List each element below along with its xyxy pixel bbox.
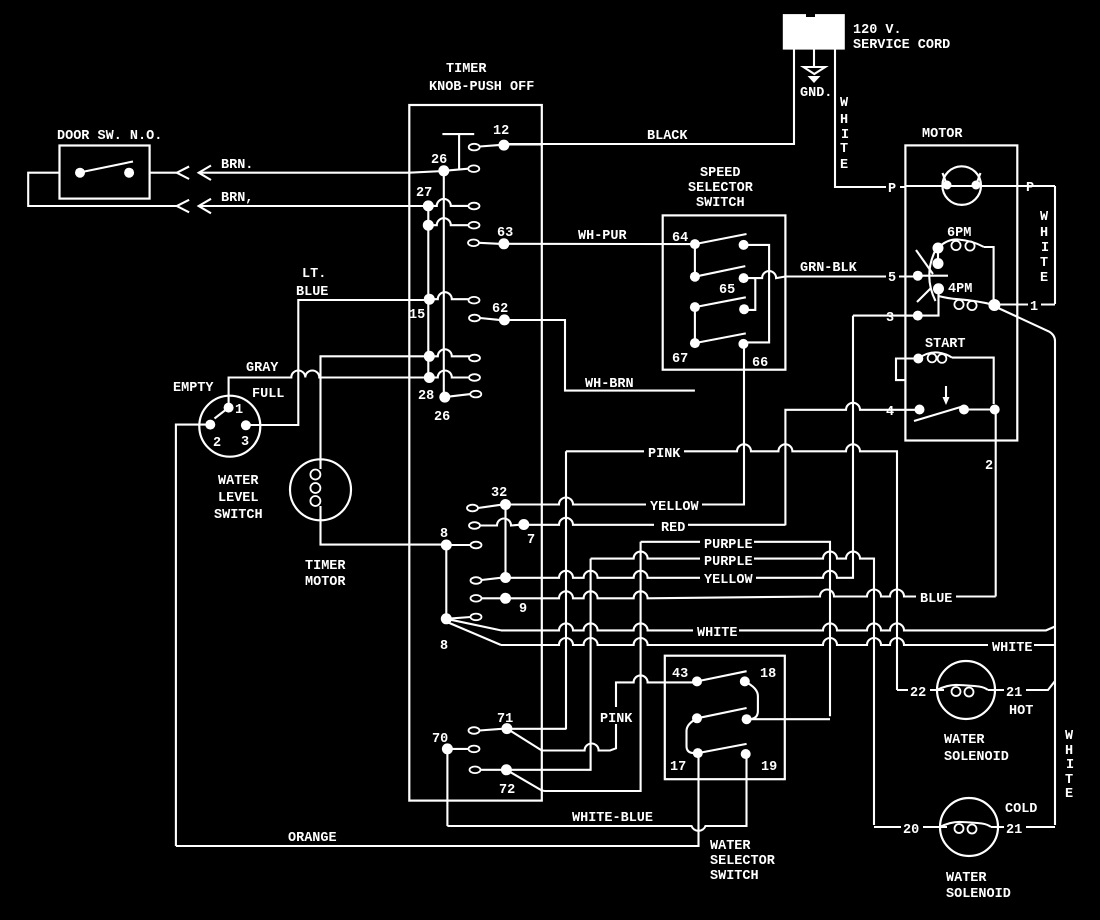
svg-text:2: 2	[985, 459, 993, 474]
wire 21 cold solenoid right to rail	[991, 826, 1055, 828]
svg-text:26: 26	[434, 410, 450, 425]
svg-text:WH-PUR: WH-PUR	[578, 229, 628, 244]
timer contact 26	[438, 165, 449, 176]
label P right	[1024, 178, 1038, 193]
svg-text:43: 43	[672, 667, 688, 682]
svg-text:COLD: COLD	[1005, 802, 1037, 817]
wire contact to hook with hop	[429, 371, 469, 378]
svg-text:67: 67	[672, 352, 688, 367]
wire 72 blade diagonal	[506, 770, 541, 791]
svg-text:9: 9	[519, 602, 527, 617]
svg-text:I: I	[1041, 241, 1049, 256]
svg-text:SPEED: SPEED	[700, 166, 741, 181]
connector arrow row2	[199, 199, 211, 214]
timer bus column 26-28	[443, 171, 445, 397]
svg-text:21: 21	[1006, 823, 1022, 838]
wire 72 to purple2 riser	[506, 559, 590, 770]
timer T-bar bus for 12	[442, 134, 474, 170]
wire YELLOW2 timer to motor 3	[506, 316, 854, 578]
svg-text:32: 32	[491, 486, 507, 501]
wire contact to hook with hop	[429, 349, 469, 356]
timer hook 28	[470, 391, 481, 398]
wire door switch loop left	[28, 173, 177, 206]
svg-text:72: 72	[499, 783, 515, 798]
wire mid right to purple1 riser	[747, 718, 830, 720]
speed contact row3 right	[739, 304, 749, 314]
timer hook 7	[469, 522, 480, 529]
svg-text:BRN.: BRN.	[221, 158, 253, 173]
water selector contact mid left	[692, 713, 702, 723]
wire 70 down to WHITE-BLUE	[446, 749, 448, 826]
svg-text:FULL: FULL	[252, 387, 284, 402]
wire 12 to BLACK	[504, 143, 542, 145]
svg-text:H: H	[1065, 744, 1073, 759]
connector chevron row2	[177, 200, 189, 213]
motor start bracket	[896, 359, 918, 381]
motor start contact	[913, 354, 923, 364]
timer contact 71	[501, 723, 512, 734]
speed left column 67	[694, 307, 696, 343]
wire PINK 71 riser	[565, 451, 567, 729]
wire centrifugal to start return	[964, 408, 995, 410]
timer contact 27	[423, 200, 434, 211]
svg-text:62: 62	[492, 302, 508, 317]
water selector contact 17	[693, 748, 703, 758]
wire WHITE2 8 to hot solenoid 21	[501, 638, 1055, 645]
wire GRN-BLK to motor 5 with hop	[753, 271, 918, 278]
timer hook (577 contact)	[471, 577, 482, 584]
svg-text:I: I	[841, 128, 849, 143]
svg-text:BLACK: BLACK	[647, 129, 688, 144]
water selector link mid left to 17	[687, 718, 698, 753]
timer motor TM	[290, 459, 351, 520]
svg-text:P: P	[1026, 181, 1034, 196]
svg-text:WH-BRN: WH-BRN	[585, 377, 634, 392]
timer contact 72	[501, 764, 512, 775]
svg-text:SOLENOID: SOLENOID	[944, 750, 1009, 765]
wire 1 to white rail	[994, 303, 1055, 305]
timer hook 8b	[471, 614, 482, 621]
svg-text:LEVEL: LEVEL	[218, 491, 259, 506]
wire 8 to hook	[446, 544, 470, 546]
wire 8b to WHITE1	[446, 619, 501, 631]
svg-text:E: E	[1040, 271, 1048, 286]
connector arrow row1	[199, 166, 211, 181]
svg-text:BLUE: BLUE	[296, 285, 328, 300]
svg-text:65: 65	[719, 283, 735, 298]
timer column 8 down	[445, 545, 447, 619]
timer hook 72	[470, 767, 481, 774]
motor 4PM winding	[939, 289, 995, 305]
svg-text:SWITCH: SWITCH	[214, 508, 263, 523]
speed link row2 to row3	[744, 278, 756, 310]
timer contact 70	[442, 743, 453, 754]
svg-text:WHITE: WHITE	[697, 626, 738, 641]
svg-text:SWITCH: SWITCH	[696, 196, 745, 211]
wire 26 to hook	[444, 169, 469, 171]
wire 20 cold solenoid left	[874, 826, 947, 828]
svg-text:H: H	[840, 113, 848, 128]
svg-text:SWITCH: SWITCH	[710, 869, 759, 884]
motor 6PM winding	[938, 239, 984, 248]
wire contact2 to ORANGE	[176, 425, 210, 846]
wire LT BLUE contact3 to timer 15	[246, 300, 429, 425]
water selector contact 18	[740, 676, 750, 686]
speed left column 64-65	[694, 244, 696, 277]
wire BRN row1 to timer 26	[199, 171, 444, 173]
wire WH-PUR 63 to speed selector 64	[504, 243, 695, 245]
svg-text:W: W	[1065, 729, 1074, 744]
wire PURPLE2 72 to cold solenoid	[591, 552, 874, 825]
motor junction dot 1	[988, 299, 1000, 311]
speed contact 65 left	[690, 272, 700, 282]
svg-text:H: H	[1040, 226, 1048, 241]
svg-text:W: W	[840, 96, 849, 111]
svg-text:TIMER: TIMER	[305, 559, 346, 574]
svg-text:2: 2	[213, 436, 221, 451]
svg-text:SELECTOR: SELECTOR	[688, 181, 754, 196]
svg-text:1: 1	[235, 403, 243, 418]
motor start return contact	[990, 405, 1000, 415]
timer contact (577)	[500, 572, 511, 583]
water level blade	[215, 408, 229, 419]
wire GRAY contact1 to timer	[229, 371, 430, 408]
wire P line through motor	[905, 185, 1017, 187]
wire 3 to yellow riser	[853, 315, 918, 317]
wire 71 blade diagonal	[507, 729, 542, 751]
wire 4 terminal to RED riser with hop	[785, 403, 919, 525]
svg-text:WATER: WATER	[946, 871, 987, 886]
wire timer motor top feed	[321, 356, 430, 461]
svg-text:KNOB-PUSH OFF: KNOB-PUSH OFF	[429, 80, 534, 95]
timer hook 63	[468, 240, 479, 247]
water selector blade 43	[697, 671, 747, 681]
svg-text:BRN,: BRN,	[221, 191, 253, 206]
water level switch S2	[199, 396, 260, 457]
svg-text:20: 20	[903, 823, 919, 838]
wire BLUE 9 to motor 2	[506, 590, 996, 599]
motor brush dots	[943, 181, 952, 190]
svg-text:RED: RED	[661, 521, 685, 536]
svg-text:GRAY: GRAY	[246, 361, 279, 376]
svg-text:T: T	[840, 142, 848, 157]
svg-text:66: 66	[752, 356, 768, 371]
timer contact 8	[441, 540, 452, 551]
svg-text:28: 28	[418, 389, 434, 404]
hot solenoid coil	[937, 685, 988, 690]
motor speed selector contact 5	[913, 271, 923, 281]
svg-text:ORANGE: ORANGE	[288, 831, 337, 846]
speed blade 64	[695, 234, 747, 244]
svg-text:MOTOR: MOTOR	[305, 575, 346, 590]
svg-text:3: 3	[241, 435, 249, 450]
motor selector blade lower	[917, 288, 931, 302]
svg-text:E: E	[1065, 787, 1073, 802]
cold solenoid coil	[940, 822, 991, 827]
wire 8b to WHITE2	[447, 622, 501, 645]
svg-text:70: 70	[432, 732, 448, 747]
svg-text:1: 1	[1030, 300, 1038, 315]
label P left	[886, 179, 900, 194]
timer motor coil	[319, 459, 321, 469]
svg-text:HOT: HOT	[1009, 704, 1033, 719]
svg-text:7: 7	[527, 533, 535, 548]
wire start right to centrifugal	[952, 358, 994, 404]
wire hook 7 to contact 7 with hop	[480, 519, 519, 526]
svg-text:T: T	[1040, 256, 1048, 271]
svg-text:PINK: PINK	[648, 447, 681, 462]
water selector contact 43	[692, 676, 702, 686]
svg-text:START: START	[925, 337, 966, 352]
svg-text:BLUE: BLUE	[920, 592, 952, 607]
wire 21 hot solenoid right to rail	[988, 681, 1055, 690]
svg-text:18: 18	[760, 667, 776, 682]
water level contact 3	[241, 420, 251, 430]
wire plug hot drop to BLACK	[504, 49, 794, 144]
svg-text:SERVICE CORD: SERVICE CORD	[853, 38, 950, 53]
wire WHITE-BLUE 70 to water selector 19	[447, 754, 746, 831]
wire BRN row2 to timer 27	[199, 205, 429, 207]
timer hook 9	[471, 595, 482, 602]
svg-text:17: 17	[670, 760, 686, 775]
wire 2 from start return to BLUE	[995, 410, 997, 597]
wire 71 to pink riser	[507, 728, 566, 730]
speed contact row2 right	[739, 273, 749, 283]
motor selector arc	[929, 250, 935, 301]
water selector contact 19	[741, 749, 751, 759]
wire PINK bundle	[566, 444, 897, 690]
timer hook (timer motor)	[469, 355, 480, 362]
svg-text:T: T	[1065, 773, 1073, 788]
timer hook 15	[469, 297, 480, 304]
connector chevron row1	[177, 167, 189, 180]
svg-text:MOTOR: MOTOR	[922, 127, 963, 142]
speed contact row3 left	[690, 302, 700, 312]
timer contact 15	[424, 294, 435, 305]
speed blade row3	[695, 297, 746, 307]
svg-text:YELLOW: YELLOW	[650, 500, 700, 515]
svg-text:63: 63	[497, 226, 513, 241]
timer hook 62	[469, 315, 480, 322]
timer hook 8	[471, 542, 482, 549]
ground symbol GND	[804, 67, 826, 74]
water level contact 1	[224, 403, 234, 413]
svg-text:SOLENOID: SOLENOID	[946, 887, 1011, 902]
timer contact 63	[498, 238, 509, 249]
timer contact 32	[500, 499, 511, 510]
motor contact 4	[915, 405, 925, 415]
svg-text:15: 15	[409, 308, 425, 323]
water selector switch S4 box	[665, 656, 785, 780]
motor 4PM tap dot	[933, 283, 944, 294]
svg-text:12: 12	[493, 124, 509, 139]
motor centrifugal switch blade	[914, 406, 964, 421]
timer contact (timer motor feed)	[424, 351, 435, 362]
water selector blade mid	[697, 708, 747, 718]
speed right rail row1 to 66	[743, 245, 769, 343]
svg-text:GND.: GND.	[800, 86, 832, 101]
timer hook (below 27)	[469, 222, 480, 229]
wire 70 to hook	[447, 748, 468, 750]
svg-text:E: E	[840, 158, 848, 173]
wire contact to hook with hop	[428, 218, 468, 225]
water level contact 2	[205, 420, 215, 430]
wire plug gnd stem	[813, 49, 815, 66]
timer contact 7	[518, 519, 529, 530]
door switch blade	[82, 162, 133, 173]
water selector blade 17	[698, 744, 747, 753]
wire plug neutral WHITE drop to motor P	[835, 49, 905, 187]
svg-text:4: 4	[886, 405, 894, 420]
svg-text:P: P	[888, 182, 896, 197]
motor run circle	[942, 166, 981, 205]
speed contact row1 right	[739, 240, 749, 250]
wire 27 to hook with hop	[428, 199, 468, 206]
timer contact 12	[498, 140, 509, 151]
motor start winding	[918, 352, 952, 358]
timer contact (gray feed)	[424, 372, 435, 383]
motor selector blade upper	[916, 250, 933, 274]
svg-text:WHITE: WHITE	[992, 641, 1033, 656]
timer contact (below 27)	[423, 220, 434, 231]
svg-text:WATER: WATER	[710, 839, 751, 854]
water selector contact mid right	[742, 714, 752, 724]
svg-text:EMPTY: EMPTY	[173, 381, 214, 396]
svg-text:PURPLE: PURPLE	[704, 555, 753, 570]
wire WHITE1 8 to white rail	[501, 623, 1055, 630]
timer contact 62	[499, 314, 510, 325]
wire PURPLE1 72 blade to water selector	[641, 542, 830, 717]
svg-text:3: 3	[886, 311, 894, 326]
timer contact 8b	[441, 613, 452, 624]
wire 71 blade to water selector 43 via PINK vertical	[542, 675, 697, 750]
svg-text:22: 22	[910, 686, 926, 701]
timer contact 28	[439, 392, 450, 403]
timer column 32 down	[504, 505, 506, 578]
svg-text:19: 19	[761, 760, 777, 775]
motor 6PM tap dots	[933, 243, 944, 254]
wire 22 hot solenoid left	[897, 689, 944, 691]
svg-text:DOOR SW. N.O.: DOOR SW. N.O.	[57, 129, 162, 144]
wire 6PM right to junction	[984, 247, 994, 300]
motor centrifugal contact	[959, 405, 969, 415]
speed contact 64	[690, 239, 700, 249]
wire 8b to hook	[446, 617, 470, 619]
motor contact 3	[913, 311, 923, 321]
svg-text:PURPLE: PURPLE	[704, 538, 753, 553]
svg-text:120 V.: 120 V.	[853, 23, 902, 38]
white rail upper	[1054, 186, 1056, 304]
svg-text:21: 21	[1006, 686, 1022, 701]
svg-text:I: I	[1066, 758, 1074, 773]
svg-text:LT.: LT.	[302, 267, 326, 282]
speed blade 67	[695, 333, 746, 343]
wire 3 to 4PM tap	[905, 289, 938, 316]
speed contact 66	[738, 339, 748, 349]
svg-text:4PM: 4PM	[948, 282, 972, 297]
timer hook 12	[469, 144, 480, 151]
wire 5 stub	[918, 275, 948, 277]
timer hook (gray)	[469, 374, 480, 381]
wire timer motor bottom to 8	[321, 518, 447, 545]
door switch contacts	[75, 168, 85, 178]
svg-text:WATER: WATER	[218, 474, 259, 489]
svg-text:WHITE-BLUE: WHITE-BLUE	[572, 811, 653, 826]
timer left column 27 down	[427, 206, 429, 378]
speed blade 65	[695, 266, 745, 277]
svg-text:SELECTOR: SELECTOR	[710, 854, 776, 869]
svg-text:WATER: WATER	[944, 733, 985, 748]
wire door switch right to connector	[150, 172, 177, 174]
svg-text:GRN-BLK: GRN-BLK	[800, 261, 858, 276]
service cord plug J1	[783, 14, 845, 50]
timer hook 70	[469, 746, 480, 753]
speed contact 67	[690, 338, 700, 348]
cold water solenoid L2	[940, 798, 998, 856]
timer hook 26	[468, 165, 479, 172]
motor brush whiskers	[943, 173, 981, 185]
wire P right to white rail	[1017, 185, 1055, 187]
motor centrifugal arrow	[945, 386, 947, 398]
timer hook 27	[469, 203, 480, 210]
svg-text:64: 64	[672, 231, 688, 246]
wire 28 to hook	[445, 394, 471, 397]
svg-text:W: W	[1040, 210, 1049, 225]
svg-text:8: 8	[440, 639, 448, 654]
timer hook 71	[469, 727, 480, 734]
svg-text:27: 27	[416, 186, 432, 201]
wire ORANGE water level 2 to water selector 17	[176, 753, 699, 846]
wire WH-BRN 62 to speed selector 67	[504, 320, 695, 391]
wire YELLOW 32 to speed 66	[506, 344, 745, 505]
svg-text:26: 26	[431, 153, 447, 168]
timer contact 9	[500, 593, 511, 604]
hot water solenoid L1	[937, 661, 995, 719]
svg-text:TIMER: TIMER	[446, 62, 487, 77]
water selector link 18 to mid right	[745, 681, 758, 719]
wire 1 diagonal to lower rail	[996, 307, 1055, 825]
wire 15 to hook with hop	[429, 292, 468, 299]
wire RED 7 to motor 4	[524, 518, 786, 525]
svg-text:YELLOW: YELLOW	[704, 573, 754, 588]
wire 72 blade to purple1 riser	[542, 542, 641, 791]
timer hook 32	[467, 505, 478, 512]
svg-text:71: 71	[497, 712, 513, 727]
svg-text:PINK: PINK	[600, 712, 633, 727]
svg-text:8: 8	[440, 527, 448, 542]
svg-text:5: 5	[888, 271, 896, 286]
